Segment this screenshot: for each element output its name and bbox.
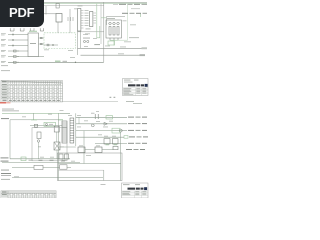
wire runs inside cabinet: [59, 163, 121, 165]
sensor B1 (green): [44, 122, 56, 126]
green pin marks below coils K3 K4: [106, 143, 110, 146]
wire motor M1 feed drop: [120, 132, 122, 180]
logo banner: [128, 84, 136, 86]
terminal strip X7: [70, 118, 74, 143]
wire row D: [76, 136, 124, 138]
node 1KO2 input row 2: [1, 38, 6, 41]
valve group box with solenoid Y1: [32, 128, 67, 161]
wire vertical feeder: [45, 6, 47, 15]
fuse F1 on bus: [56, 3, 59, 8]
scattered label smudges top schematic: [44, 18, 136, 58]
contactor Q1 (3-phase): [106, 20, 122, 38]
rows: [123, 87, 149, 89]
table verticals: [8, 81, 61, 102]
label =EB+0-W1 on bottom wire: [55, 61, 61, 62]
wire pair below X1: [77, 31, 79, 55]
node 1KO3 input row 3: [1, 44, 6, 47]
wire green bus: [2, 3, 147, 5]
wire top rail page2: [2, 112, 70, 114]
node =EB label 2: [1, 161, 9, 162]
pin number labels between X1 X2: [74, 6, 91, 30]
table frame: [1, 81, 63, 102]
cabinet boundary box: [58, 153, 123, 181]
terminal strip X2 with pin ticks: [90, 12, 93, 27]
label =1BH1 notes top right: [119, 4, 126, 5]
input module U1: [28, 33, 39, 57]
connectors X10 X11 X12 X13: [10, 28, 14, 31]
motor M1 symbol on row C: [119, 129, 122, 132]
title block frame: [123, 79, 149, 96]
wire with fuse F2: [30, 125, 62, 127]
wire row E: [95, 143, 127, 145]
relays K5 K6 bottom cluster: [78, 147, 85, 153]
wire U1 outputs: [39, 37, 45, 39]
bottom-left notes: [12, 167, 71, 169]
wire phase stubs below Q1: [109, 38, 111, 40]
left margin notes: [1, 64, 8, 67]
sockets X4 X5: [83, 40, 85, 42]
wire row C: [113, 130, 127, 132]
supervision group box (dashed): [44, 33, 76, 49]
table last-row text dashes: [3, 100, 60, 101]
PDF badge: [0, 0, 44, 27]
relay K2: [54, 126, 59, 132]
wire center divider vertical: [103, 2, 105, 62]
valve symbol V1 on row B: [104, 122, 108, 125]
wire drops: [57, 22, 59, 33]
page background: [0, 0, 149, 198]
contacts K1.1 K1.2 on rung: [94, 114, 96, 119]
node 1KO5 input row 5: [1, 55, 6, 58]
page2 top-right small labels: [126, 100, 134, 103]
red highlight: [0, 102, 6, 104]
wire long horizontals to right margin: [78, 47, 143, 49]
sensor S1 inside group: [44, 44, 58, 46]
relay coils K3 K4: [104, 139, 110, 145]
wire green riser net L1: [127, 4, 129, 40]
cell text specks: [9, 84, 61, 98]
power supply G1: [56, 14, 62, 23]
wire drops page2 left: [33, 113, 35, 120]
green marker box row C: [112, 128, 120, 133]
table horizontals: [1, 86, 63, 99]
left note rows: [2, 108, 14, 111]
wire return verticals: [83, 131, 85, 164]
wire top border line: [2, 1, 147, 3]
connector X3 hatch: [67, 17, 69, 21]
node =EB1 label: [1, 118, 9, 119]
wire X1 bottom rail: [78, 31, 104, 33]
node EB0 input row 6: [1, 60, 6, 63]
terminal strip X6 (rungs): [62, 121, 67, 143]
wire main rail: [58, 113, 60, 180]
node 1KO4 input row 4: [1, 49, 6, 52]
green highlight bits on EB line: [31, 119, 37, 121]
contacts S2 S3 in cabinet: [59, 154, 63, 159]
terminal strip X1 with pin ticks: [78, 9, 81, 32]
wire gather rail: [10, 158, 70, 160]
wire link to Q1: [107, 16, 126, 18]
wire grey bus: [44, 5, 104, 7]
wire row A: [76, 116, 127, 118]
node 1KO1 input row 1: [1, 33, 6, 36]
row header smudges: [2, 83, 7, 86]
wire row B: [76, 123, 127, 125]
scattered label smudges page2: [22, 110, 116, 162]
label above U1: [29, 30, 37, 33]
wire green stubs: [96, 4, 98, 38]
